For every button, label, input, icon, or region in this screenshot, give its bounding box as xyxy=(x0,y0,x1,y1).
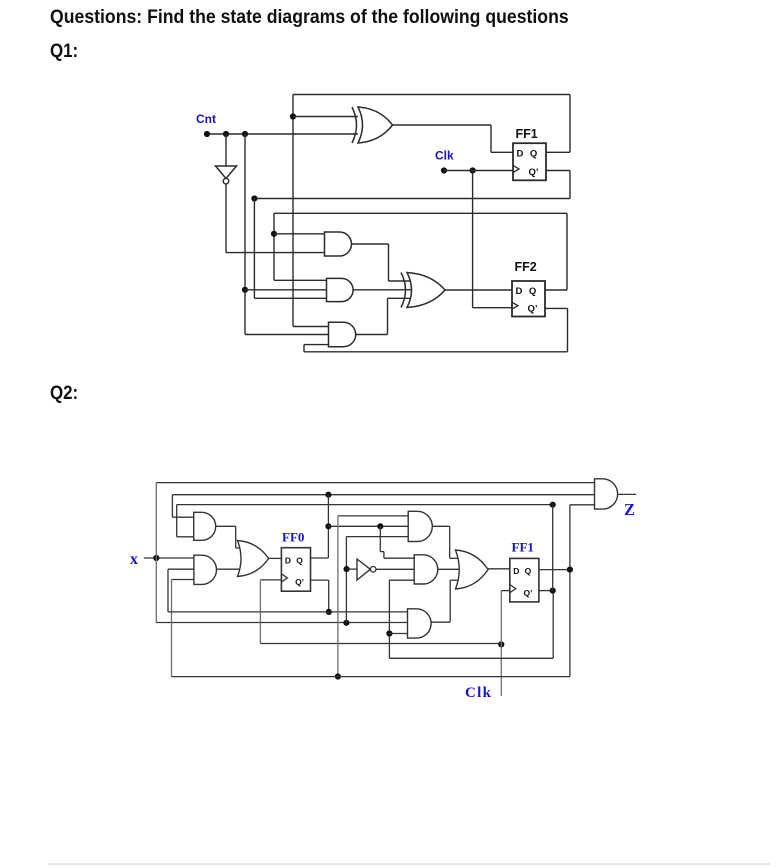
svg-text:Q: Q xyxy=(296,555,303,565)
svg-text:Q’: Q’ xyxy=(529,167,539,178)
svg-text:FF1: FF1 xyxy=(516,127,538,141)
svg-text:D: D xyxy=(517,149,524,160)
svg-text:Q: Q xyxy=(529,286,536,297)
svg-text:Q’: Q’ xyxy=(295,577,304,587)
svg-text:FF1: FF1 xyxy=(512,540,534,555)
svg-text:Q’: Q’ xyxy=(528,304,538,315)
svg-text:D: D xyxy=(513,566,519,576)
svg-text:Q: Q xyxy=(530,149,537,160)
svg-text:Cnt: Cnt xyxy=(196,112,216,126)
svg-text:Clk: Clk xyxy=(435,149,454,163)
svg-text:Z: Z xyxy=(624,500,635,519)
svg-text:FF0: FF0 xyxy=(282,530,304,545)
svg-text:Q: Q xyxy=(525,566,532,576)
svg-text:D: D xyxy=(285,555,291,565)
svg-text:D: D xyxy=(516,286,523,297)
svg-text:x: x xyxy=(130,551,138,568)
svg-text:Q’: Q’ xyxy=(523,588,532,598)
svg-text:FF2: FF2 xyxy=(515,260,537,274)
svg-text:Clk: Clk xyxy=(465,685,492,701)
